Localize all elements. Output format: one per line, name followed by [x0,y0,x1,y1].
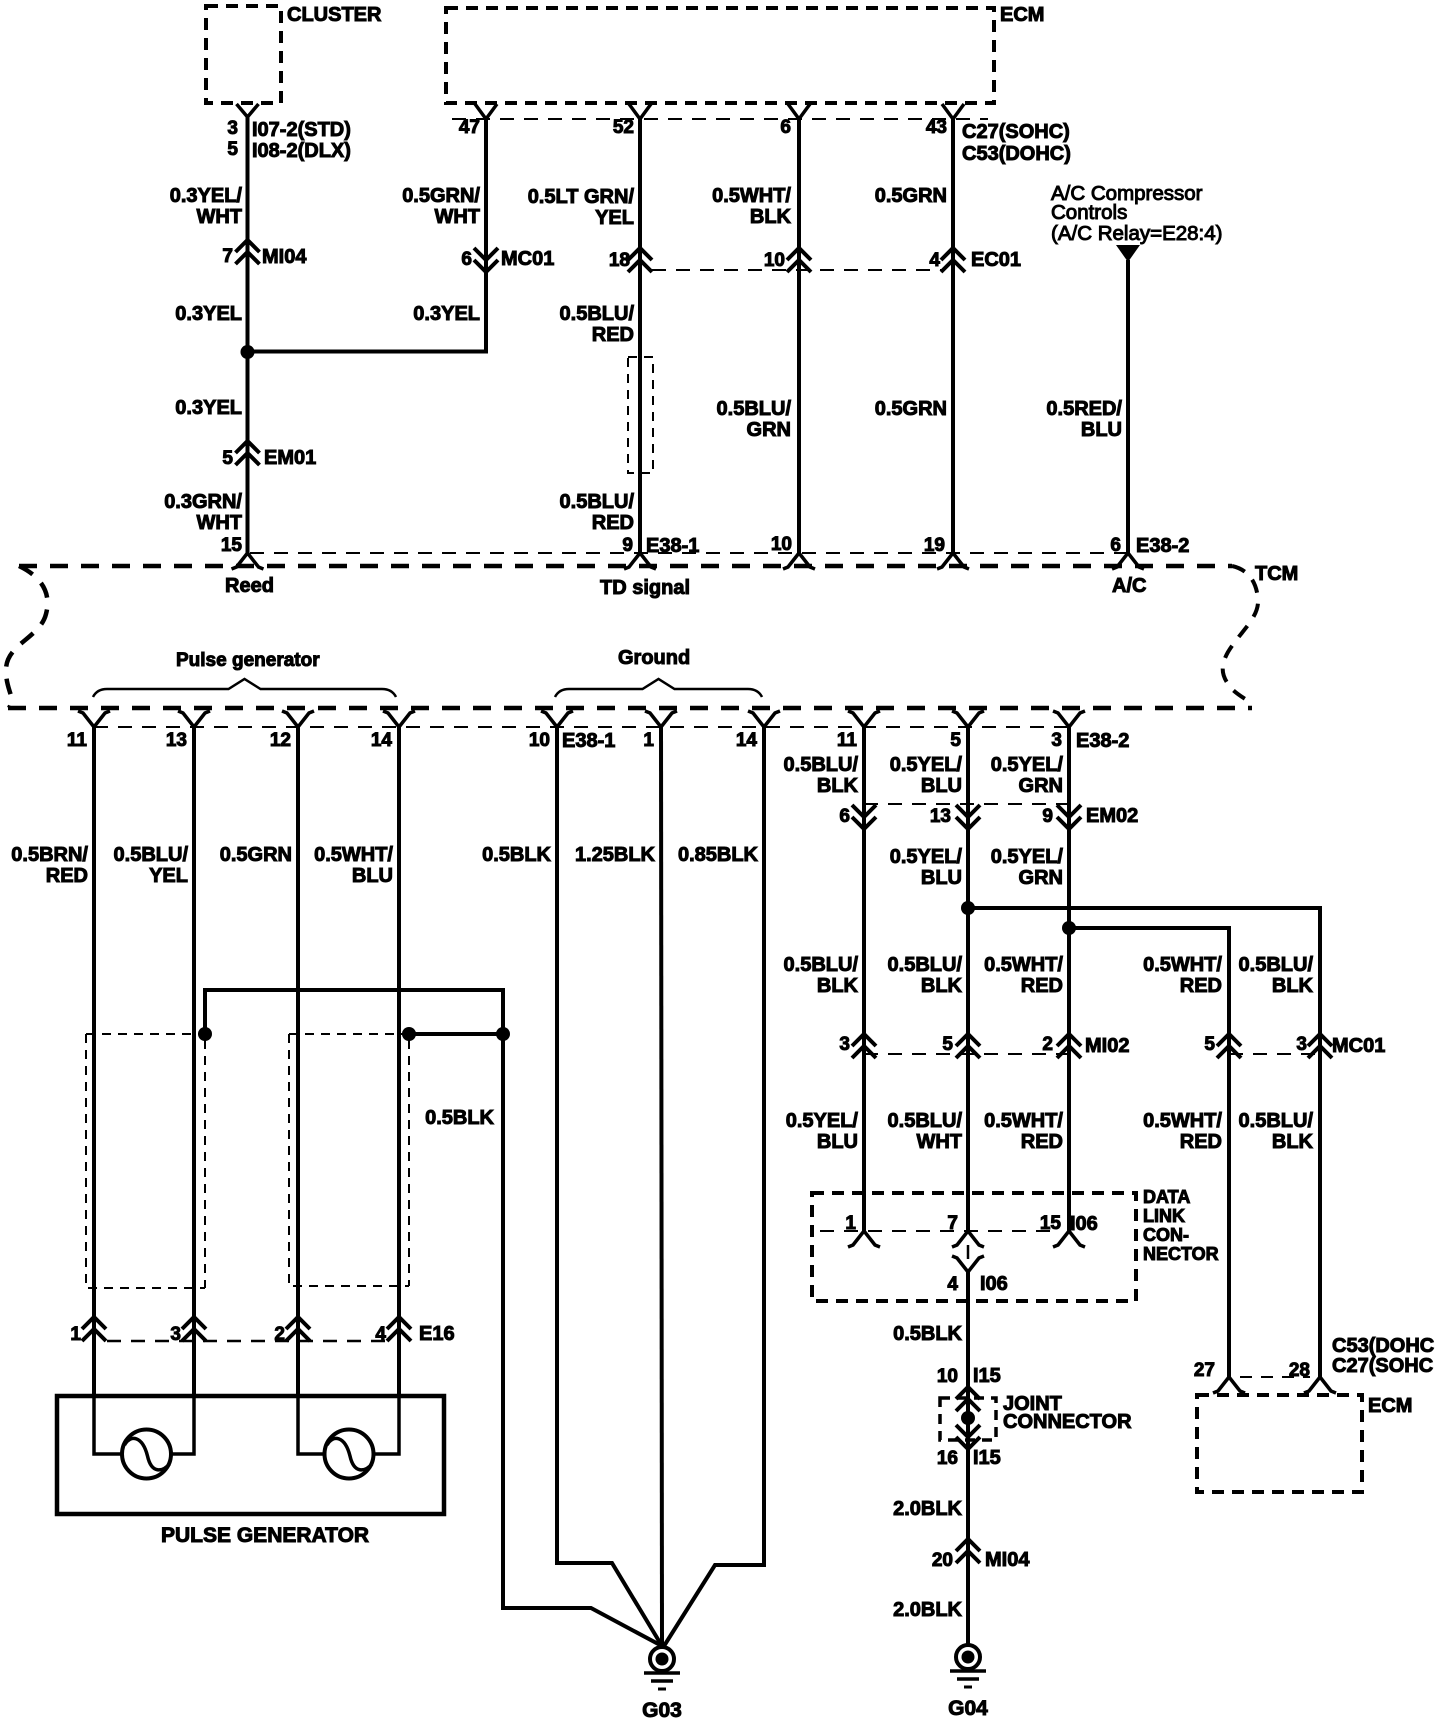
svg-text:5: 5 [227,139,238,160]
svg-text:27: 27 [1194,1360,1215,1381]
svg-text:I06: I06 [1070,1213,1098,1235]
junction dot wire 5/13 [961,901,975,915]
pin fork CLUSTER pin 3/5 [237,104,259,117]
wire junction to MC01 5 (0.5WHT/RED) [1069,928,1229,1377]
svg-text:MC01: MC01 [1332,1035,1385,1057]
svg-text:52: 52 [613,117,634,138]
svg-text:0.5BLU/: 0.5BLU/ [888,954,963,976]
pulse generator internal wiring right [298,1396,399,1454]
svg-text:0.5BLU/: 0.5BLU/ [784,754,859,776]
connector E16 pin 1 chevrons [82,1317,106,1329]
TCM box top dashed edge [19,564,1232,569]
svg-text:19: 19 [924,535,945,556]
svg-text:A/C: A/C [1112,575,1146,597]
svg-text:0.5GRN/: 0.5GRN/ [402,185,480,207]
connector E16 pin 2 chevrons [286,1317,310,1329]
connector MC01 pin 6 chevrons [474,260,498,272]
svg-text:0.5BLU/: 0.5BLU/ [717,398,792,420]
svg-text:WHT: WHT [434,206,480,228]
svg-text:Pulse generator: Pulse generator [176,650,320,671]
svg-text:0.5GRN: 0.5GRN [875,185,947,207]
svg-text:2: 2 [274,1324,285,1345]
wire ECM pin47 to MC01 (0.5GRN/WHT) [484,119,488,272]
svg-text:0.5WHT/: 0.5WHT/ [984,954,1063,976]
svg-text:3: 3 [1296,1034,1307,1055]
svg-text:3: 3 [1051,730,1062,751]
svg-text:Reed: Reed [225,575,274,597]
svg-text:15: 15 [221,535,243,556]
TCM bottom pin 11 fork [848,711,880,727]
svg-text:BLK: BLK [817,775,859,797]
wire DLC pin7 to pin4 (thin) [967,1245,970,1259]
svg-text:5: 5 [1204,1034,1215,1055]
svg-text:3: 3 [170,1324,181,1345]
connector MI02 row dashed line [864,1053,1069,1055]
svg-text:ECM: ECM [1368,1395,1412,1417]
svg-text:BLK: BLK [1272,1131,1314,1153]
svg-text:BLK: BLK [1272,975,1314,997]
wire shield drain to ground G03 (0.5BLK) [503,1034,662,1646]
svg-text:Ground: Ground [618,647,690,669]
svg-text:9: 9 [622,535,633,556]
svg-text:LINK: LINK [1143,1206,1185,1226]
svg-text:0.5LT GRN/: 0.5LT GRN/ [528,186,635,208]
svg-text:RED: RED [46,865,88,887]
connector MI02 pin 2 chevrons [1057,1034,1081,1046]
svg-text:0.5WHT/: 0.5WHT/ [712,185,791,207]
svg-text:0.5WHT/: 0.5WHT/ [984,1110,1063,1132]
TCM pin 9 fork + label E38-1 [624,553,656,569]
svg-text:C53(DOHC: C53(DOHC [1332,1335,1434,1357]
svg-text:0.5WHT/: 0.5WHT/ [314,844,393,866]
connector MI02 pin 3 chevrons [852,1034,876,1046]
TCM pin 6 fork + label E38-2 [1112,553,1144,569]
svg-text:0.5YEL/: 0.5YEL/ [991,754,1064,776]
svg-text:DATA: DATA [1143,1187,1190,1207]
svg-text:3: 3 [227,118,238,139]
connector box ECM (bottom) [1197,1395,1362,1492]
svg-text:RED: RED [1180,1131,1222,1153]
svg-text:6: 6 [839,806,850,827]
svg-text:C27(SOHC): C27(SOHC) [962,121,1070,143]
svg-text:1: 1 [70,1324,81,1345]
shield dashed box around wires 1-3 [86,1034,205,1288]
svg-text:CON-: CON- [1143,1225,1189,1245]
svg-text:BLU: BLU [817,1131,858,1153]
svg-text:BLK: BLK [817,975,859,997]
ECM bottom connector row dashed line [1240,1376,1310,1378]
svg-text:7: 7 [222,246,233,267]
svg-text:GRN: GRN [1019,775,1063,797]
svg-text:0.5GRN: 0.5GRN [875,398,947,420]
svg-text:0.3GRN/: 0.3GRN/ [164,491,242,513]
svg-text:1: 1 [643,730,654,751]
wire ECM pin43 to EC01 (0.5GRN) [951,119,955,553]
svg-text:4: 4 [375,1324,386,1345]
pulse generator AC source 2 [325,1430,374,1479]
ground G03 [650,1647,674,1671]
svg-text:0.3YEL: 0.3YEL [175,397,242,419]
svg-text:MI04: MI04 [262,246,307,268]
svg-text:6: 6 [780,117,791,138]
brace pulse generator [93,679,396,697]
TCM bottom pin 14 fork [383,711,415,727]
svg-text:YEL: YEL [149,865,188,887]
svg-text:0.5RED/: 0.5RED/ [1046,398,1122,420]
brace ground [555,679,762,697]
TCM bottom pin 12 fork [282,711,314,727]
connector row dashed line 18-10-EC01 [652,269,944,271]
shield drain junction dot (left) [198,1027,212,1041]
svg-text:11: 11 [67,730,88,751]
svg-text:TD signal: TD signal [600,577,690,599]
connector EM02 pin 9 chevrons [1057,817,1081,829]
svg-text:CONNECTOR: CONNECTOR [1003,1411,1132,1433]
TCM bottom pin 13 fork [178,711,210,727]
connector MC01 pin 3 chevrons [1308,1034,1332,1046]
svg-text:GRN: GRN [1019,867,1063,889]
svg-text:15: 15 [1040,1213,1062,1234]
svg-text:0.5BLK: 0.5BLK [425,1107,494,1129]
svg-text:MI02: MI02 [1085,1035,1129,1057]
svg-text:GRN: GRN [747,419,791,441]
wire cluster pin3 to MI04 (0.3YEL/WHT) [246,117,250,352]
TCM pin 10 fork [783,553,815,569]
svg-text:0.3YEL: 0.3YEL [413,303,480,325]
ECM pin 28 fork [1304,1377,1336,1393]
svg-text:2.0BLK: 2.0BLK [893,1599,962,1621]
connector box ECM (top) [446,8,994,103]
svg-text:18: 18 [609,250,630,271]
svg-text:YEL: YEL [595,207,634,229]
svg-text:2.0BLK: 2.0BLK [893,1498,962,1520]
pin 43 fork (ECM) [942,104,964,119]
svg-text:BLU: BLU [352,865,393,887]
svg-text:E38-2: E38-2 [1076,730,1129,752]
shield drain junction dot (right) [496,1027,510,1041]
svg-text:G04: G04 [948,1697,988,1720]
wire TCM 5 down (0.5YEL/BLU) [966,727,970,1231]
svg-text:3: 3 [839,1034,850,1055]
svg-text:WHT: WHT [196,512,242,534]
connector EM01 pin 5 chevrons [236,441,260,453]
svg-text:5: 5 [950,730,961,751]
svg-text:0.5BLU/: 0.5BLU/ [560,303,635,325]
connector box DATA LINK CONNECTOR [812,1193,1136,1301]
svg-text:6: 6 [461,249,472,270]
svg-text:20: 20 [932,1550,953,1571]
svg-text:E16: E16 [419,1323,455,1345]
wire TCM 11 to E16 1 (0.5BRN/RED) [92,727,96,1396]
connector 18 chevrons (E38-1 branch) [628,248,652,260]
wire ECM pin6 to 10 (0.5WHT/BLK) [797,119,801,553]
junction dot 0.3YEL [241,345,255,359]
wire junction to EM01 (0.3YEL) [246,352,250,553]
svg-text:I07-2(STD): I07-2(STD) [252,119,351,141]
pin 6 fork (ECM) [788,104,810,119]
svg-text:6: 6 [1110,535,1121,556]
svg-text:0.5BLU/: 0.5BLU/ [784,954,859,976]
TCM box right wavy dashed edge [1223,566,1258,706]
connector E16 pin 4 chevrons [387,1317,411,1329]
svg-text:0.5YEL/: 0.5YEL/ [786,1110,859,1132]
junction dot wire 3/9 [1062,921,1076,935]
TCM bottom pin 1 fork [645,711,677,727]
wire TCM 14 to E16 4 (0.5WHT/BLU) [397,727,401,1396]
svg-text:I06: I06 [980,1273,1008,1295]
svg-text:0.5YEL/: 0.5YEL/ [890,754,963,776]
shield dashed box around wires 2-4 [289,1034,409,1286]
svg-text:5: 5 [942,1034,953,1055]
connector MC01 row dashed line (right) [1229,1053,1320,1055]
svg-text:BLU: BLU [921,775,962,797]
svg-text:RED: RED [592,512,634,534]
TCM box bottom dashed edge [8,706,1252,711]
DLC pin 4 fork + label I06 [952,1256,984,1272]
svg-text:WHT: WHT [916,1131,962,1153]
svg-text:0.5BLU/: 0.5BLU/ [1239,1110,1314,1132]
connector 10 chevrons [787,248,811,260]
TCM bottom pin 5 fork [952,711,984,727]
svg-text:PULSE GENERATOR: PULSE GENERATOR [161,1524,369,1547]
svg-text:12: 12 [270,730,291,751]
wire TCM 12 to E16 2 (0.5GRN) [296,727,300,1396]
svg-text:10: 10 [771,534,792,555]
svg-text:10: 10 [937,1366,958,1387]
shield drain junction dot (mid) [402,1027,416,1041]
wire DLC 4 to joint connector (0.5BLK) [966,1272,970,1645]
svg-text:I08-2(DLX): I08-2(DLX) [252,140,351,162]
wire TCM 3 down (0.5YEL/GRN) [1067,727,1071,1231]
joint connector internal dot [961,1411,975,1425]
option dashed box on TD signal wire [628,357,653,473]
svg-text:RED: RED [1021,975,1063,997]
svg-text:NECTOR: NECTOR [1143,1244,1219,1264]
svg-text:C53(DOHC): C53(DOHC) [962,143,1071,165]
connector I15 pin 10 chevrons + labels [956,1387,980,1399]
pulse generator internal wiring left [94,1396,194,1454]
connector MI02 pin 5 chevrons [956,1034,980,1046]
svg-text:I15: I15 [973,1447,1001,1469]
svg-text:0.5BLU/: 0.5BLU/ [560,491,635,513]
wire MC01 down and left to junction (0.3YEL) [248,272,487,352]
svg-text:CLUSTER: CLUSTER [287,4,382,26]
svg-text:9: 9 [1042,806,1053,827]
svg-text:4: 4 [947,1274,958,1295]
svg-text:5: 5 [222,448,233,469]
svg-text:EM02: EM02 [1086,805,1138,827]
svg-text:TCM: TCM [1255,563,1298,585]
ECM pin 27 fork [1213,1377,1245,1393]
svg-text:43: 43 [926,117,947,138]
svg-text:0.3YEL: 0.3YEL [175,303,242,325]
svg-text:E38-1: E38-1 [646,535,699,557]
wire junction to MC01 3 (0.5BLU/BLK) [968,908,1320,1377]
svg-text:ECM: ECM [1000,4,1044,26]
connector E16 pin 3 chevrons [182,1317,206,1329]
connector EM02 row dashed line [864,803,1069,805]
DLC pin 15 fork + label I06 [1053,1231,1085,1247]
svg-text:0.3YEL/: 0.3YEL/ [170,185,243,207]
svg-text:13: 13 [166,730,187,751]
svg-text:0.5BLU/: 0.5BLU/ [114,844,189,866]
connector MI04 pin 7 chevrons [236,240,260,252]
svg-text:14: 14 [736,730,758,751]
PULSE GENERATOR box [57,1396,444,1514]
TCM bottom pin 11 fork [78,711,110,727]
svg-text:MC01: MC01 [501,248,554,270]
DLC pin 1 fork [848,1231,880,1247]
svg-text:BLK: BLK [921,975,963,997]
svg-text:BLK: BLK [750,206,792,228]
pin 52 fork (ECM) [629,104,651,119]
pin 47 fork (ECM) [475,104,497,119]
svg-text:10: 10 [529,730,550,751]
svg-text:0.85BLK: 0.85BLK [678,844,759,866]
svg-text:0.5BLU/: 0.5BLU/ [888,1110,963,1132]
TCM pin 15 fork [232,553,264,569]
svg-text:EC01: EC01 [971,249,1021,271]
svg-text:E38-2: E38-2 [1136,535,1189,557]
svg-text:RED: RED [1021,1131,1063,1153]
wire A/C triangle to TCM pin 6 (0.5RED/BLU) [1126,260,1130,553]
TCM pin 19 fork [937,553,969,569]
A/C feed triangle arrow [1116,245,1140,262]
pulse generator AC source 1 [122,1430,171,1479]
TCM top connector row dashed line [250,552,1126,554]
svg-text:0.5WHT/: 0.5WHT/ [1143,954,1222,976]
connector EC01 pin 4 chevrons [941,248,965,260]
svg-text:0.5BLU/: 0.5BLU/ [1239,954,1314,976]
svg-text:4: 4 [929,250,940,271]
connector MC01 pin 5 chevrons [1217,1034,1241,1046]
svg-text:13: 13 [930,806,951,827]
TCM bottom pin 3 fork [1053,711,1085,727]
svg-text:RED: RED [592,324,634,346]
svg-text:BLU: BLU [1081,419,1122,441]
svg-text:0.5YEL/: 0.5YEL/ [890,846,963,868]
TCM bottom pin 14 fork [748,711,780,727]
svg-text:0.5GRN: 0.5GRN [220,844,292,866]
DLC connector row dashed line [820,1230,1058,1232]
connector I15 pin 16 chevrons + labels [956,1437,980,1449]
connector EM02 pin 6 chevrons [852,817,876,829]
TCM box left wavy dashed edge [6,566,48,708]
svg-text:1: 1 [845,1213,856,1234]
svg-text:2: 2 [1042,1034,1053,1055]
DLC pin 7 fork [952,1231,984,1247]
svg-text:Controls: Controls [1051,201,1127,224]
svg-text:0.5BLK: 0.5BLK [482,844,551,866]
svg-text:10: 10 [764,250,785,271]
svg-text:16: 16 [937,1448,958,1469]
joint connector dashed box [940,1398,996,1440]
svg-text:0.5BRN/: 0.5BRN/ [11,844,88,866]
svg-text:RED: RED [1180,975,1222,997]
svg-text:0.5BLK: 0.5BLK [893,1323,962,1345]
svg-text:7: 7 [947,1213,958,1234]
ground G04 [956,1645,980,1669]
wire TCM 11 down (0.5BLU/BLK) [862,727,866,1231]
svg-text:C27(SOHC: C27(SOHC [1332,1355,1433,1377]
svg-text:0.5WHT/: 0.5WHT/ [1143,1110,1222,1132]
svg-text:I15: I15 [973,1365,1001,1387]
TCM bottom pin 10 fork [541,711,573,727]
wire ECM pin52 to 18 (0.5LT GRN/YEL) [638,119,642,553]
shield drain wire to ground [205,990,503,1034]
connector MI04 pin 20 chevrons [956,1539,980,1551]
wire TCM 14 to G03 (0.85BLK) [664,727,764,1646]
svg-text:MI04: MI04 [985,1549,1030,1571]
svg-text:1.25BLK: 1.25BLK [575,844,656,866]
connector box CLUSTER [206,6,281,103]
svg-text:47: 47 [459,117,480,138]
svg-text:BLU: BLU [921,867,962,889]
svg-text:EM01: EM01 [264,447,316,469]
shield drain wire segment right [409,1032,503,1036]
svg-text:WHT: WHT [196,206,242,228]
svg-text:(A/C Relay=E28:4): (A/C Relay=E28:4) [1051,222,1222,245]
svg-text:0.5YEL/: 0.5YEL/ [991,846,1064,868]
ECM connector row dashed line [452,118,988,120]
svg-text:G03: G03 [642,1699,682,1722]
svg-text:E38-1: E38-1 [562,730,615,752]
wire TCM 13 to E16 3 (0.5BLU/YEL) [192,727,196,1396]
wire TCM 10/E38-1 to G03 (0.5BLK) [557,727,662,1646]
connector E16 row dashed line [107,1340,395,1343]
wire TCM 1 to G03 (1.25BLK) [661,727,662,1646]
connector EM02 pin 13 chevrons [956,817,980,829]
TCM bottom connector row dashed line [94,726,1069,728]
svg-text:11: 11 [837,730,858,751]
svg-text:14: 14 [371,730,393,751]
